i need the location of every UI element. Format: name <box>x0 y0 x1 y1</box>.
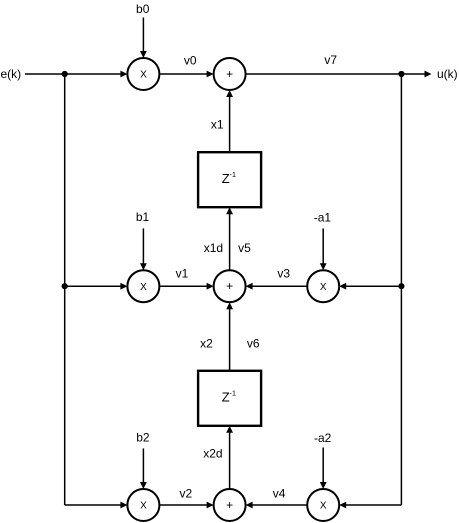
wire e(k) input to multiplier M1 <box>25 71 127 78</box>
wire mid junction to multiplier M2 <box>65 283 128 290</box>
svg-text:X: X <box>320 501 327 512</box>
multiplier M3 (-a1) <box>307 270 339 302</box>
adder A1 <box>214 58 246 90</box>
wire A1 to output u(k), net v7 <box>246 71 432 78</box>
svg-text:x2: x2 <box>200 337 213 351</box>
svg-text:v6: v6 <box>247 337 260 351</box>
svg-text:b0: b0 <box>136 2 150 16</box>
wire coefficient b1 into M2 <box>140 228 147 270</box>
svg-text:v4: v4 <box>273 487 286 501</box>
delay Z2 <box>198 371 261 426</box>
svg-text:v5: v5 <box>238 241 251 255</box>
svg-text:X: X <box>140 282 147 293</box>
wire left rail bottom to multiplier M4 <box>65 502 128 509</box>
wire right rail to multiplier M3 <box>339 283 401 290</box>
wire coefficient -a1 into M3 <box>320 228 327 270</box>
wire right rail bottom to multiplier M5 <box>339 502 401 509</box>
svg-text:-a1: -a1 <box>314 210 332 224</box>
wire delay Z1 output to adder A1, net x1 <box>226 90 233 152</box>
svg-text:x2d: x2d <box>203 446 222 460</box>
wire adder A3 output into delay Z2, net x2d <box>226 426 233 489</box>
delay Z1 <box>198 152 261 207</box>
wire coefficient b2 into M4 <box>140 448 147 489</box>
wire adder A2 output into delay Z1, nets x1d v5 <box>226 207 233 270</box>
multiplier M5 (-a2) <box>307 489 339 521</box>
svg-text:v3: v3 <box>277 267 290 281</box>
wire M2 to adder A2, net v1 <box>159 283 213 290</box>
svg-text:u(k): u(k) <box>437 67 458 81</box>
multiplier M4 (b2) <box>127 489 159 521</box>
svg-text:+: + <box>226 67 233 81</box>
svg-text:X: X <box>140 501 147 512</box>
svg-text:X: X <box>140 70 147 81</box>
svg-text:x1d: x1d <box>204 241 223 255</box>
wire delay Z2 output to adder A2, nets x2 v6 <box>226 302 233 371</box>
adder A2 <box>214 270 246 302</box>
node J1 input junction <box>62 71 68 77</box>
node J3 output junction <box>398 71 404 77</box>
svg-text:-1: -1 <box>229 388 236 397</box>
svg-text:X: X <box>320 282 327 293</box>
wire right rail down <box>400 74 402 505</box>
adder A3 <box>214 489 246 521</box>
wire M3 to adder A2, net v3 <box>246 283 308 290</box>
node J2 left mid junction <box>62 283 68 289</box>
svg-text:e(k): e(k) <box>1 67 22 81</box>
svg-text:v1: v1 <box>176 267 189 281</box>
multiplier M2 (b1) <box>127 270 159 302</box>
svg-text:-1: -1 <box>229 170 236 179</box>
svg-text:v0: v0 <box>184 53 197 67</box>
svg-text:b2: b2 <box>136 431 150 445</box>
wire coefficient -a2 into M5 <box>320 448 327 490</box>
svg-text:+: + <box>226 279 233 293</box>
wire M1 to adder A1, net v0 <box>159 71 213 78</box>
wire M4 to adder A3, net v2 <box>159 502 213 509</box>
wire coefficient b0 into M1 <box>140 18 147 59</box>
svg-text:+: + <box>226 498 233 512</box>
svg-text:v2: v2 <box>180 487 193 501</box>
svg-text:b1: b1 <box>136 210 150 224</box>
wire M5 to adder A3, net v4 <box>246 502 308 509</box>
svg-text:x1: x1 <box>211 118 224 132</box>
multiplier M1 (b0) <box>127 58 159 90</box>
svg-text:v7: v7 <box>324 53 337 67</box>
svg-text:-a2: -a2 <box>314 431 332 445</box>
wire left rail down <box>64 74 66 505</box>
node J4 right mid junction <box>398 283 404 289</box>
